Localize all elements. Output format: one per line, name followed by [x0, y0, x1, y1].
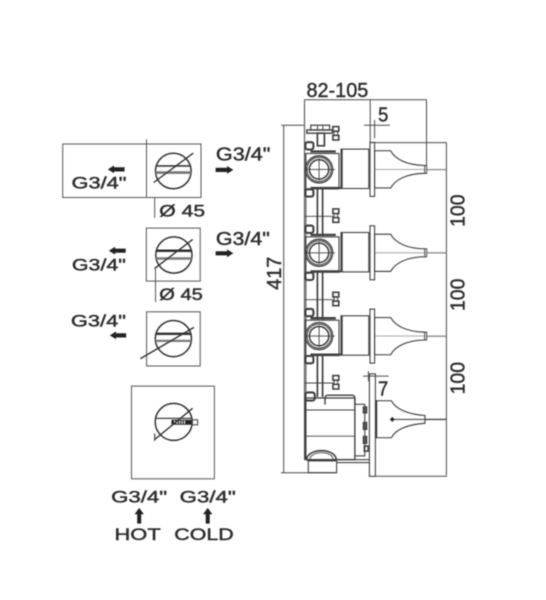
main body block	[305, 398, 355, 460]
screw lug 2	[333, 209, 339, 214]
handle center line	[375, 252, 447, 254]
svg-text:G3/4": G3/4"	[72, 256, 126, 275]
spindle thread tab 2	[363, 422, 366, 429]
handle tip cap	[425, 166, 427, 174]
handle knob profile	[375, 318, 425, 355]
knob base bold edge	[375, 401, 377, 438]
connector handle1 wire	[427, 169, 447, 171]
bottom wall bracket	[305, 273, 313, 280]
crosshair horizontal	[306, 335, 335, 337]
spindle thread tab 1	[363, 407, 366, 413]
nut castellations	[311, 125, 330, 130]
bottom outlet box	[308, 461, 336, 473]
dim 7 left tick wire	[367, 371, 369, 381]
cartridge middle ring	[307, 157, 331, 181]
handle slot line upper	[156, 165, 191, 167]
crosshair horizontal	[306, 168, 335, 170]
spindle block	[341, 316, 369, 355]
spindle block	[341, 149, 369, 188]
handle center line	[392, 418, 446, 420]
connecting pipe down	[316, 189, 318, 236]
svg-text:5: 5	[378, 105, 388, 127]
handle knob profile	[375, 234, 425, 271]
dim 417 line	[283, 125, 285, 473]
spindle block bold edge	[341, 316, 343, 355]
svg-text:G3/4": G3/4"	[216, 144, 271, 164]
front view group 2 : single valve square	[72, 228, 270, 304]
connector handle2 wire	[427, 252, 447, 254]
right outlet arrow	[216, 249, 234, 257]
crosshair vertical	[318, 325, 320, 347]
divider wire	[146, 139, 148, 197]
svg-text:HOT: HOT	[115, 525, 161, 544]
spindle lug tab	[364, 446, 368, 451]
left inlet arrow	[109, 247, 126, 255]
seam line	[305, 215, 334, 217]
cartridge flange top band	[311, 150, 336, 152]
nut flange	[307, 130, 333, 133]
diagonal lever line	[140, 327, 194, 358]
top wall bracket	[305, 226, 313, 233]
left inlet arrow	[108, 166, 125, 174]
body division line lower	[305, 435, 355, 437]
knob diamond marker	[390, 417, 396, 423]
spindle housing	[355, 404, 365, 456]
seam line	[305, 382, 334, 384]
cartridge inner circle	[309, 160, 328, 179]
top wall bracket	[305, 309, 313, 316]
valve body rectangle	[63, 144, 201, 198]
front view group 4 : thermostat square	[132, 386, 215, 479]
svg-text:417: 417	[264, 257, 286, 290]
diagonal lever line	[155, 408, 193, 439]
svg-text:G3/4": G3/4"	[180, 487, 236, 506]
chord line	[155, 417, 193, 419]
valve unit 2	[305, 226, 447, 320]
handle circle	[155, 321, 191, 357]
svg-text:G3/4": G3/4"	[216, 229, 270, 249]
svg-text:100: 100	[448, 195, 470, 227]
leader wire for diameter	[155, 269, 157, 302]
connecting pipe down	[316, 272, 318, 319]
handle tip cap	[425, 249, 427, 257]
handle knob profile	[375, 151, 425, 188]
bottom wall bracket	[305, 356, 313, 363]
seam line	[305, 299, 334, 301]
escutcheon plate	[370, 309, 375, 363]
valve unit 1	[305, 142, 447, 236]
hot up arrow	[135, 508, 144, 524]
wall mounting line	[304, 100, 306, 460]
handle slot line lower	[156, 340, 192, 342]
handle slot line lower	[156, 257, 192, 260]
screw lug 4	[333, 376, 339, 381]
inlet elbow bracket	[305, 392, 314, 400]
dim 7 line	[363, 375, 389, 377]
handle slot line upper	[156, 333, 191, 335]
cartridge housing square	[306, 237, 339, 272]
black knob bar	[171, 420, 191, 425]
handle center line	[375, 335, 447, 337]
dim 82-105 right extension wire	[426, 100, 428, 174]
svg-text:G3/4": G3/4"	[72, 173, 127, 192]
svg-text:G3/4": G3/4"	[111, 487, 167, 506]
svg-text:100: 100	[448, 362, 470, 394]
svg-text:Ø 45: Ø 45	[159, 202, 205, 221]
body division line upper	[305, 409, 355, 411]
cartridge flange bottom band	[311, 354, 341, 356]
valve square	[147, 312, 201, 366]
pipe arch elbow	[307, 451, 336, 460]
foot band to plate	[337, 459, 370, 461]
svg-text:82-105: 82-105	[307, 80, 369, 102]
crosshair vertical	[318, 158, 320, 180]
handle slot line upper	[156, 249, 191, 252]
trim plate square	[132, 386, 215, 479]
top wall bracket	[305, 142, 313, 149]
handle tip cap	[425, 332, 427, 340]
handle circle	[155, 403, 192, 440]
side view body	[305, 100, 447, 477]
inlet stem pipe	[317, 133, 324, 146]
spindle block bold edge	[341, 149, 343, 188]
cartridge outer circle	[306, 239, 333, 266]
dim 5 tick wire	[374, 120, 376, 138]
knob bar white ticks	[175, 421, 185, 424]
escutcheon plate	[370, 142, 375, 196]
dim 82-105 line	[304, 99, 426, 101]
cartridge flange top band	[311, 317, 336, 319]
body block bold left edge	[305, 398, 307, 460]
thermostat unit 4	[305, 374, 446, 476]
dim 417 top connector wire	[281, 124, 304, 126]
cartridge inner circle	[309, 326, 328, 345]
crosshair horizontal	[306, 252, 335, 254]
body top cap	[325, 395, 355, 404]
escutcheon plate	[370, 226, 375, 280]
right outlet arrow	[216, 166, 234, 174]
arch base bold line	[307, 459, 337, 461]
connector handle4 wire	[427, 419, 447, 421]
side view dimensions	[264, 80, 470, 476]
svg-text:COLD: COLD	[174, 525, 233, 544]
handle circle	[156, 237, 192, 273]
left inlet arrow	[110, 332, 126, 340]
handle center line	[375, 168, 447, 170]
lever stub wire	[154, 434, 156, 441]
cartridge outer circle	[306, 323, 333, 350]
crosshair vertical	[318, 242, 320, 264]
valve square	[146, 228, 200, 281]
bottom labels	[111, 487, 236, 544]
cartridge middle ring	[307, 241, 331, 265]
connector plate top wire	[370, 142, 446, 144]
diagonal lever line	[154, 153, 194, 182]
svg-text:7: 7	[378, 378, 388, 400]
cartridge flange bottom band	[311, 270, 341, 272]
svg-text:G3/4": G3/4"	[71, 312, 126, 331]
spindle thread tab 3	[363, 436, 366, 443]
cartridge flange bottom band	[311, 187, 341, 189]
cartridge outer circle	[306, 156, 333, 183]
cartridge inner circle	[309, 243, 328, 262]
thermostat knob profile	[376, 401, 425, 438]
dim 82-105 mid tick wire	[369, 100, 371, 143]
connecting pipe down	[316, 356, 318, 397]
knob cap outline	[192, 420, 198, 425]
diagonal lever line	[155, 239, 193, 268]
screw lug 3	[333, 292, 339, 297]
dim 100 chain line	[445, 143, 447, 477]
screw lug 1	[333, 127, 339, 140]
valve unit 3	[305, 309, 447, 397]
connector plate bottom wire	[376, 475, 447, 477]
dim 5 line	[364, 124, 390, 126]
cartridge housing square	[306, 320, 339, 355]
cartridge flange top band	[311, 234, 336, 236]
connector handle3 wire	[427, 335, 447, 337]
top inlet fitting	[307, 125, 333, 146]
spindle block bold edge	[341, 233, 343, 272]
leader wire for diameter	[154, 198, 156, 218]
body back rail line	[305, 154, 307, 460]
spindle block	[341, 233, 369, 272]
front view group 3 : single valve square	[71, 312, 200, 366]
front view group 1 : two-outlet valve rectangle	[63, 139, 271, 220]
escutcheon plate 7mm	[369, 374, 375, 476]
cartridge housing square	[306, 154, 339, 189]
dim 417 bottom connector wire	[281, 472, 337, 474]
svg-text:Ø 45: Ø 45	[159, 285, 203, 304]
svg-text:100: 100	[448, 279, 470, 311]
handle slot line lower	[156, 171, 191, 174]
bottom wall bracket	[305, 189, 313, 196]
cold up arrow	[203, 508, 212, 524]
handle circle	[156, 153, 192, 189]
cartridge middle ring	[307, 324, 331, 348]
